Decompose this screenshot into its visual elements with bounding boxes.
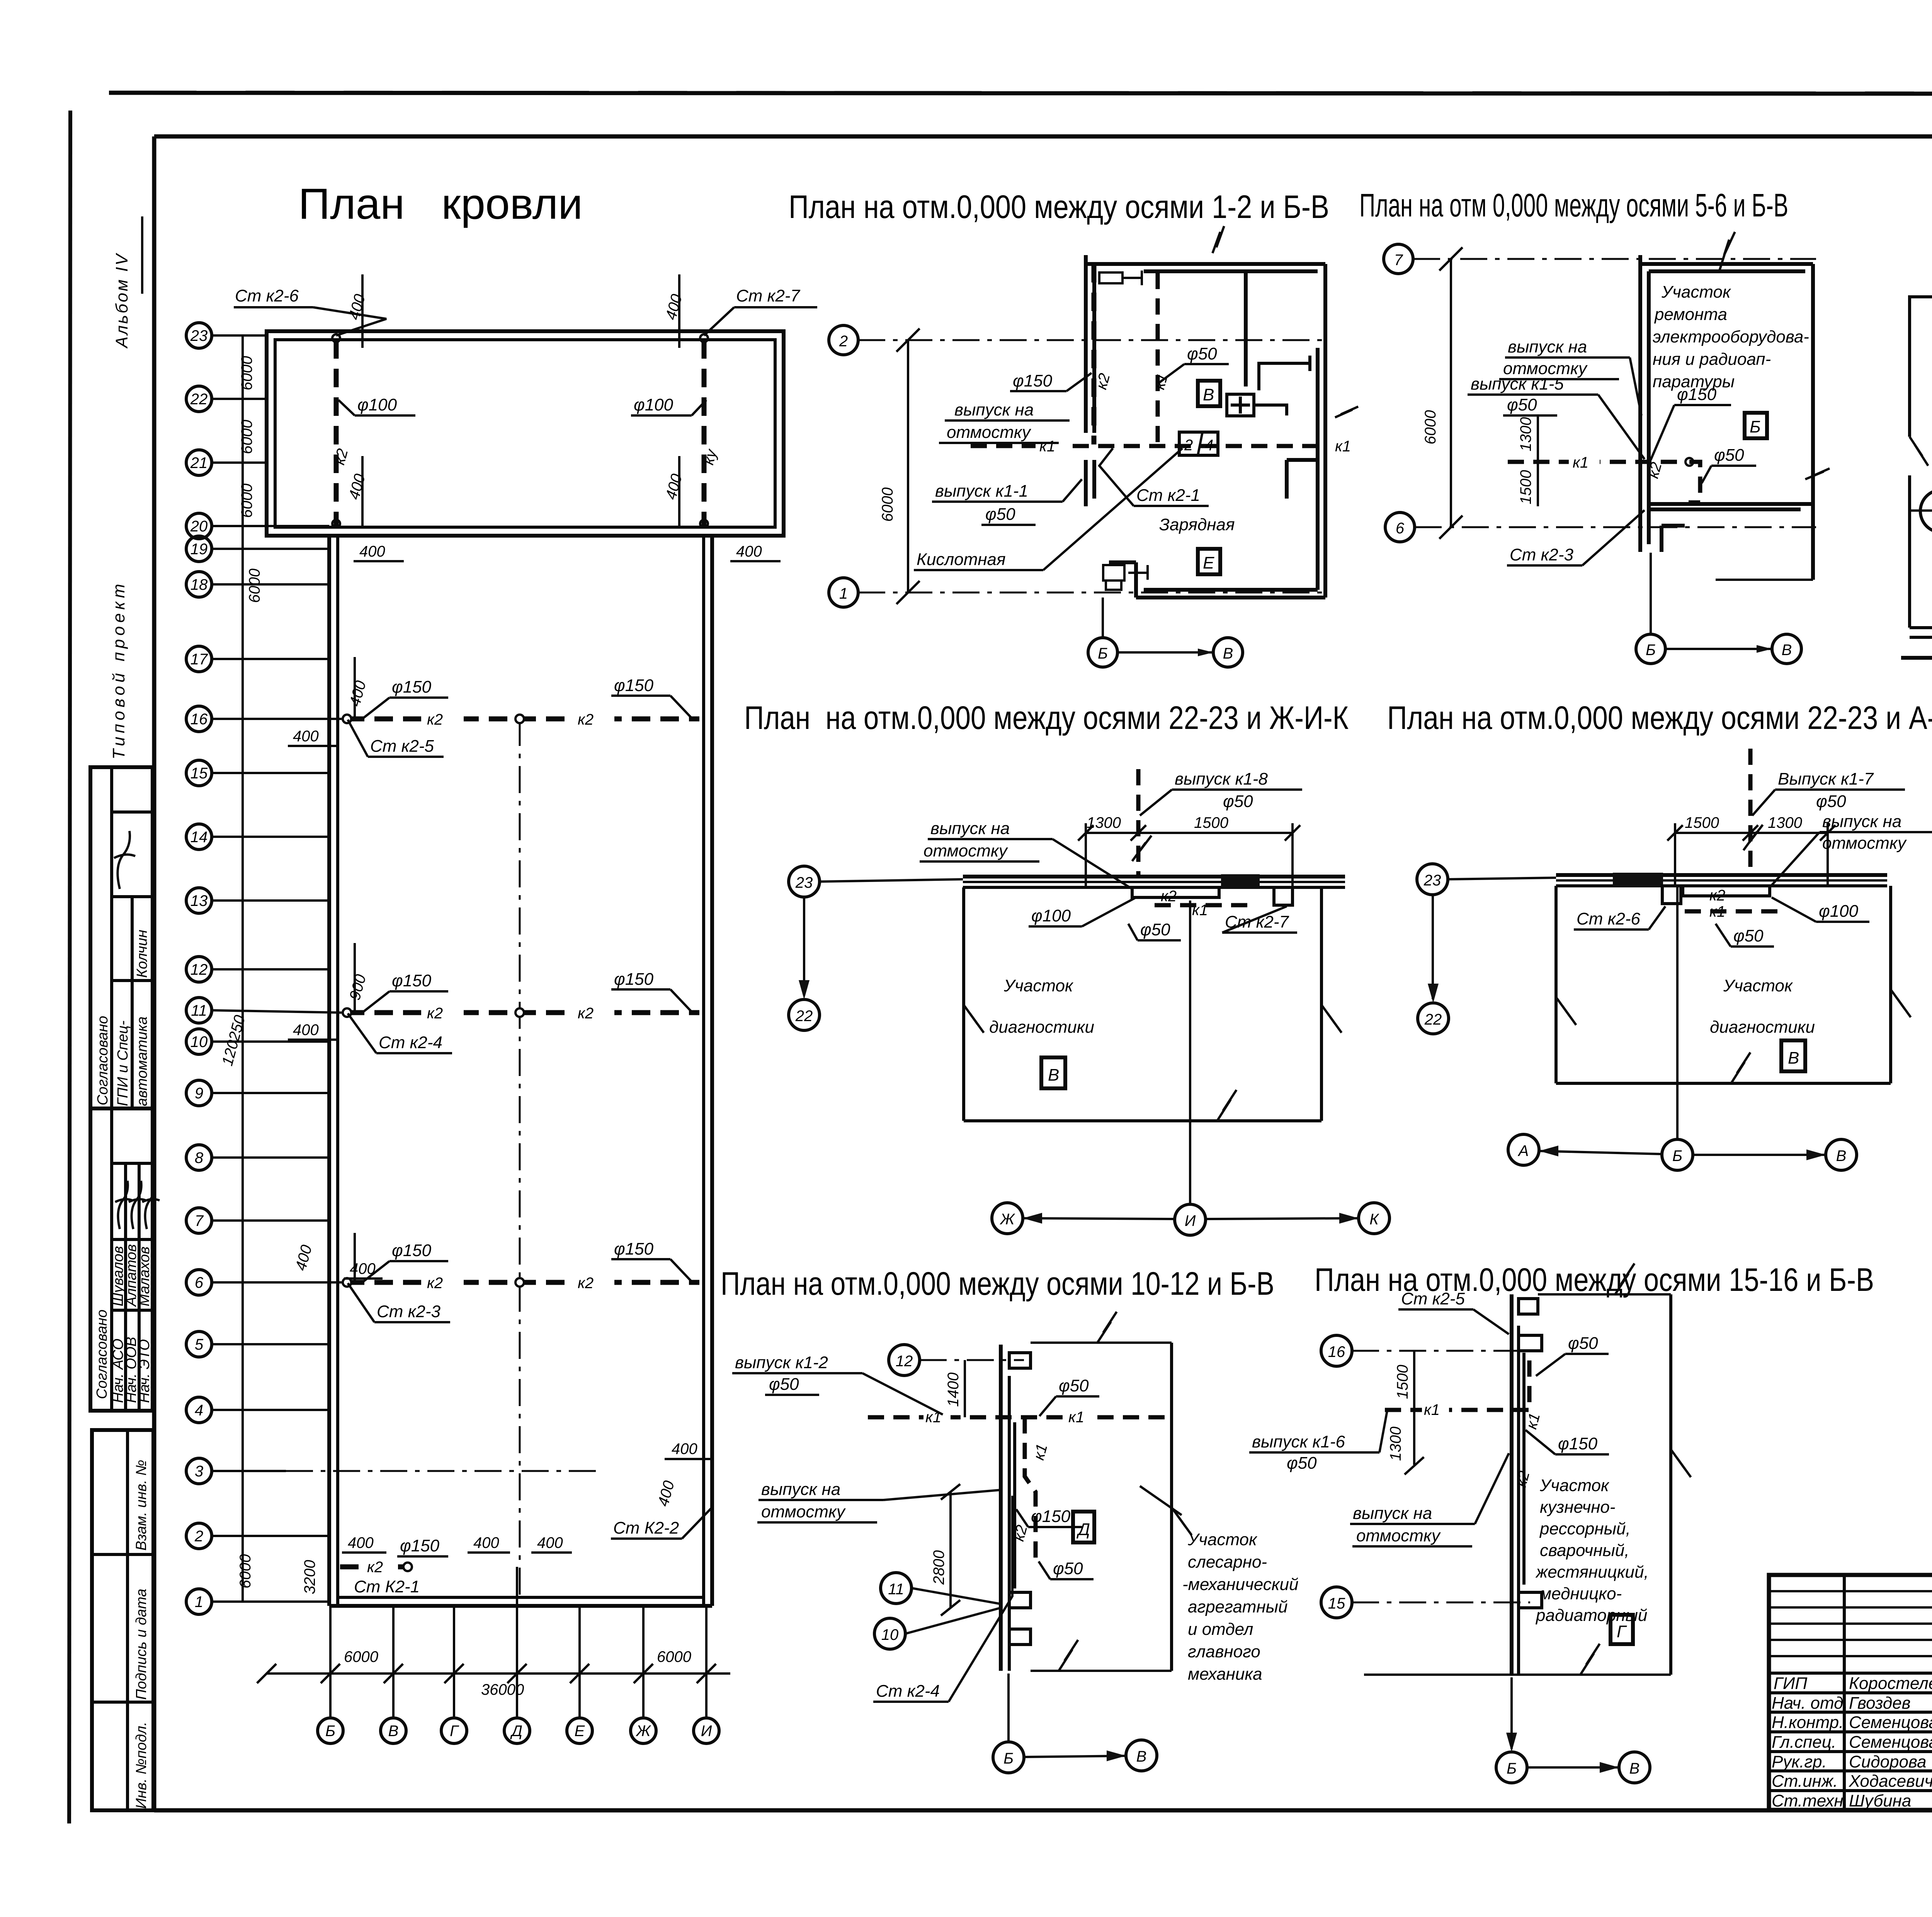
svg-text:к1: к1	[1335, 438, 1351, 455]
svg-text:22: 22	[190, 391, 208, 408]
svg-text:В: В	[1203, 385, 1214, 404]
left axis row lines	[212, 335, 342, 1602]
svg-text:15: 15	[1328, 1595, 1345, 1612]
svg-text:Г: Г	[450, 1723, 459, 1740]
axis circle 23	[1417, 864, 1448, 895]
svg-text:Колчин: Колчин	[134, 930, 150, 978]
break marks	[964, 1005, 984, 1033]
svg-text:Ст к2-5: Ст к2-5	[370, 737, 434, 756]
svg-text:φ50: φ50	[1733, 926, 1764, 945]
bottom axis circles A B V	[1508, 1134, 1539, 1165]
svg-text:Участок: Участок	[1003, 976, 1074, 995]
svg-text:Ст к2-7: Ст к2-7	[736, 286, 801, 305]
svg-text:Гл.спец.: Гл.спец.	[1772, 1733, 1836, 1752]
svg-text:400: 400	[348, 1534, 374, 1551]
svg-text:Согласовано: Согласовано	[95, 1016, 111, 1105]
svg-text:Е: Е	[575, 1723, 585, 1740]
svg-text:Б: Б	[1003, 1750, 1014, 1767]
axis circle 7	[1384, 244, 1413, 274]
svg-text:выпуск к1-5: выпуск к1-5	[1471, 375, 1564, 393]
axis circle 22	[1418, 1003, 1449, 1034]
axis circle 1	[829, 578, 858, 607]
K1 dashed horizontal	[868, 1415, 1166, 1420]
svg-text:Ст к2-5: Ст к2-5	[1401, 1289, 1465, 1308]
B room tag	[1745, 413, 1767, 438]
svg-text:к2: к2	[578, 1005, 594, 1022]
svg-text:18: 18	[190, 576, 208, 593]
svg-text:к2: к2	[578, 711, 594, 728]
svg-text:φ50: φ50	[1187, 344, 1217, 363]
2/4 box	[1179, 432, 1218, 455]
axis circle 6	[1385, 512, 1415, 542]
svg-text:11: 11	[191, 1002, 207, 1019]
svg-text:1400: 1400	[945, 1372, 962, 1407]
svg-text:14: 14	[190, 829, 208, 846]
svg-text:1300: 1300	[1387, 1427, 1404, 1461]
svg-text:23: 23	[190, 327, 208, 344]
break marks	[1097, 1312, 1117, 1343]
svg-text:φ150: φ150	[1013, 371, 1053, 390]
K1 dashed pipes	[971, 444, 1318, 448]
svg-text:φ50: φ50	[1140, 920, 1170, 939]
svg-text:выпуск к1-2: выпуск к1-2	[735, 1353, 828, 1372]
axis circle 22	[789, 999, 820, 1030]
svg-text:к2: к2	[427, 1005, 443, 1022]
svg-text:к2: к2	[427, 1275, 443, 1292]
svg-text:ния и радиоап-: ния и радиоап-	[1653, 350, 1771, 369]
svg-text:3200: 3200	[301, 1560, 318, 1594]
svg-text:4: 4	[195, 1402, 203, 1419]
svg-text:к1: к1	[1573, 454, 1588, 471]
svg-text:φ150: φ150	[392, 971, 432, 990]
bottom axis circles B V	[1088, 638, 1117, 667]
svg-text:выпуск к1-1: выпуск к1-1	[935, 482, 1028, 501]
K2 row at axis 6	[292, 1233, 699, 1322]
svg-text:φ50: φ50	[985, 505, 1015, 524]
svg-text:Г: Г	[1617, 1622, 1627, 1641]
svg-text:400: 400	[293, 1021, 319, 1039]
svg-text:1300: 1300	[1517, 417, 1534, 451]
svg-text:400: 400	[293, 728, 319, 745]
axis circle 16	[1321, 1335, 1352, 1366]
svg-text:отмостку: отмостку	[947, 423, 1032, 442]
St K2-6 label	[234, 286, 386, 335]
svg-text:16: 16	[190, 711, 208, 728]
svg-text:выпуск на: выпуск на	[930, 819, 1010, 838]
svg-text:ГПИ и Спец-: ГПИ и Спец-	[115, 1020, 131, 1106]
svg-text:Коростелев: Коростелев	[1849, 1674, 1932, 1693]
svg-text:1500: 1500	[1394, 1365, 1411, 1399]
wall vertical double	[999, 1345, 1003, 1671]
svg-text:1: 1	[839, 585, 848, 602]
svg-text:5: 5	[195, 1336, 204, 1353]
bottom axis circles	[993, 1742, 1024, 1773]
bottom axis circles	[1636, 634, 1665, 664]
thin top rows	[1769, 1591, 1932, 1656]
svg-text:К: К	[1369, 1211, 1379, 1228]
svg-text:электрооборудова-: электрооборудова-	[1653, 327, 1809, 346]
bottom axis circles	[992, 1203, 1023, 1234]
svg-text:к1: к1	[1068, 1409, 1084, 1426]
svg-text:ремонта: ремонта	[1654, 305, 1727, 324]
svg-text:Ст к2-3: Ст к2-3	[1510, 545, 1574, 564]
svg-text:Б: Б	[1672, 1147, 1682, 1165]
svg-text:1500: 1500	[1194, 814, 1228, 831]
svg-text:6: 6	[195, 1274, 204, 1291]
svg-text:13: 13	[190, 892, 208, 909]
left inlet pipe	[1910, 509, 1932, 512]
svg-text:выпуск к1-6: выпуск к1-6	[1252, 1432, 1345, 1451]
svg-text:Ж: Ж	[636, 1723, 651, 1740]
svg-text:400: 400	[537, 1534, 563, 1551]
svg-text:400: 400	[672, 1440, 697, 1457]
labels	[732, 1353, 943, 1415]
V room tag	[1198, 381, 1220, 406]
top wall triple	[1556, 873, 1887, 877]
E room tag	[1198, 549, 1220, 574]
svg-text:План кровли: План кровли	[298, 180, 583, 228]
break marks	[1719, 232, 1735, 271]
dims 1400 / 2800	[964, 1360, 966, 1417]
svg-text:Кислотная: Кислотная	[917, 550, 1006, 569]
svg-text:Д: Д	[510, 1723, 522, 1740]
svg-text:И: И	[701, 1723, 712, 1740]
svg-text:к2: к2	[427, 711, 443, 728]
svg-text:10: 10	[190, 1033, 208, 1050]
svg-text:φ50: φ50	[1714, 446, 1744, 465]
svg-text:В: В	[1782, 642, 1792, 659]
top wall (triple)	[963, 875, 1345, 878]
svg-text:φ150: φ150	[400, 1536, 440, 1555]
svg-text:к2: к2	[578, 1275, 594, 1292]
sidebar stamp box 3 (Vzam inv / Podpis i data / Inv N podl)	[92, 1430, 153, 1810]
svg-text:3: 3	[195, 1463, 203, 1480]
svg-text:Взам. инв. №: Взам. инв. №	[133, 1460, 150, 1551]
svg-text:1300: 1300	[1768, 814, 1802, 831]
svg-text:φ100: φ100	[1031, 906, 1071, 925]
fixtures bottom (sink)	[1103, 565, 1124, 581]
svg-text:6000: 6000	[237, 1554, 254, 1588]
svg-text:отмостку: отмостку	[1822, 834, 1907, 853]
svg-text:400: 400	[473, 1534, 499, 1551]
svg-text:11: 11	[888, 1581, 904, 1598]
svg-text:φ50: φ50	[1816, 792, 1846, 811]
vertical 6000 dims top-left	[219, 356, 318, 1594]
dims 1300/1500	[1537, 414, 1539, 506]
paper edge top	[109, 93, 1932, 94]
svg-text:В: В	[1136, 1748, 1147, 1765]
svg-text:Шубина: Шубина	[1849, 1791, 1911, 1810]
svg-text:Малахов: Малахов	[136, 1246, 153, 1306]
svg-text:Участок: Участок	[1723, 976, 1793, 995]
svg-text:слесарно-: слесарно-	[1188, 1553, 1267, 1571]
svg-text:План на отм.0,000 между осями: План на отм.0,000 между осями 10-12 и Б-…	[721, 1265, 1274, 1302]
svg-text:12: 12	[896, 1353, 913, 1370]
svg-text:жестяницкий,: жестяницкий,	[1535, 1563, 1649, 1582]
svg-text:φ150: φ150	[1031, 1507, 1071, 1526]
svg-text:План на отм.0,000 между осями: План на отм.0,000 между осями 15-16 и Б-…	[1315, 1262, 1874, 1298]
room right wall	[1170, 1343, 1173, 1671]
svg-text:рессорный,: рессорный,	[1539, 1519, 1631, 1538]
svg-text:6000: 6000	[238, 356, 255, 390]
svg-text:Типовой проект: Типовой проект	[109, 581, 128, 759]
room	[1554, 886, 1558, 1083]
room	[962, 887, 965, 1121]
svg-text:23: 23	[1423, 872, 1441, 889]
svg-text:ГИП: ГИП	[1774, 1674, 1807, 1693]
dims 1500 1300	[1413, 1351, 1415, 1465]
svg-text:400: 400	[350, 1260, 376, 1277]
svg-text:4: 4	[1205, 437, 1213, 454]
walls	[1640, 255, 1813, 580]
svg-text:φ150: φ150	[392, 678, 432, 696]
svg-text:φ50: φ50	[769, 1375, 799, 1394]
K2 row at axis 16	[288, 657, 699, 757]
svg-text:1300: 1300	[1087, 814, 1121, 831]
svg-text:7: 7	[1394, 252, 1403, 269]
svg-text:выпуск на: выпуск на	[954, 400, 1034, 419]
svg-text:6000: 6000	[246, 569, 263, 603]
svg-text:-механический: -механический	[1182, 1575, 1298, 1594]
svg-text:Н.контр.: Н.контр.	[1772, 1713, 1844, 1732]
axis circle 15	[1321, 1587, 1352, 1618]
svg-text:Б: Б	[1646, 642, 1656, 659]
svg-text:1500: 1500	[1517, 470, 1534, 504]
labels	[1752, 770, 1905, 815]
K1 dashed vertical above wall	[1136, 769, 1141, 875]
svg-text:Ст к2-6: Ст к2-6	[1577, 909, 1641, 928]
svg-text:Инв. №подл.: Инв. №подл.	[133, 1722, 150, 1809]
svg-text:6000: 6000	[238, 484, 255, 518]
svg-text:Ходасевич: Ходасевич	[1849, 1772, 1932, 1791]
svg-text:Участок: Участок	[1661, 283, 1731, 301]
svg-text:Рук.гр.: Рук.гр.	[1772, 1752, 1827, 1771]
paper edge left	[69, 111, 70, 1823]
labels	[1140, 770, 1302, 815]
K1 dashed vertical	[1748, 749, 1753, 874]
svg-text:агрегатный: агрегатный	[1188, 1597, 1288, 1616]
svg-text:к1: к1	[1424, 1401, 1440, 1418]
svg-text:Зарядная: Зарядная	[1159, 515, 1235, 534]
svg-text:Ст к2-4: Ст к2-4	[379, 1033, 442, 1052]
svg-text:Семенцова: Семенцова	[1849, 1733, 1932, 1752]
svg-text:10: 10	[881, 1626, 899, 1643]
svg-text:диагностики: диагностики	[1710, 1018, 1815, 1037]
bottom circles	[1496, 1752, 1527, 1783]
labels	[1653, 283, 1809, 391]
axis circle 12	[889, 1345, 920, 1376]
svg-text:В: В	[1629, 1760, 1640, 1777]
axis circles 23..1	[186, 323, 212, 1614]
axis circle 11	[881, 1573, 912, 1604]
svg-text:отмостку: отмостку	[761, 1502, 846, 1521]
svg-text:20: 20	[190, 518, 208, 535]
axis circle 2	[829, 325, 858, 355]
svg-text:9: 9	[195, 1085, 203, 1102]
400 dims at risers	[345, 274, 781, 561]
svg-text:2: 2	[839, 333, 848, 350]
axis circle 23	[789, 866, 820, 897]
svg-text:6000: 6000	[879, 487, 896, 522]
svg-text:кузнечно-: кузнечно-	[1540, 1498, 1616, 1517]
svg-text:22: 22	[795, 1008, 813, 1025]
labels	[1536, 1334, 1609, 1376]
svg-text:φ150: φ150	[392, 1241, 432, 1260]
svg-text:φ50: φ50	[1568, 1334, 1598, 1353]
svg-text:φ150: φ150	[1677, 385, 1717, 404]
svg-text:главного: главного	[1188, 1642, 1260, 1661]
svg-text:Семенцова: Семенцова	[1849, 1713, 1932, 1732]
svg-text:φ50: φ50	[1507, 395, 1537, 414]
dim 1300 1500	[1086, 832, 1293, 834]
plus fixture right	[1227, 394, 1287, 416]
svg-text:Ст к2-3: Ст к2-3	[377, 1302, 441, 1321]
svg-text:Подпись и дата: Подпись и дата	[133, 1589, 150, 1700]
sidebar stamp box 2 (Soglasovano / Nach ASO OOB ETO)	[90, 1108, 160, 1411]
svg-text:автоматика: автоматика	[134, 1016, 150, 1106]
svg-text:φ50: φ50	[1223, 792, 1253, 811]
svg-text:φ150: φ150	[614, 676, 654, 695]
svg-text:1500: 1500	[1685, 814, 1719, 831]
svg-text:И: И	[1185, 1212, 1196, 1229]
svg-text:отмостку: отмостку	[1356, 1526, 1441, 1545]
svg-text:6: 6	[1396, 520, 1405, 537]
svg-text:6000: 6000	[344, 1648, 378, 1665]
sidebar stamp box 1 (Soglasovano / GPI i Spec-avtomatika / Kolchin)	[90, 767, 153, 1108]
K2 row at axis 11	[288, 943, 699, 1053]
F100 labels	[338, 395, 415, 415]
svg-text:21: 21	[190, 455, 208, 472]
bottom letter axes	[257, 1567, 730, 1718]
svg-text:φ100: φ100	[357, 395, 397, 414]
svg-text:В: В	[1223, 645, 1233, 662]
break marks	[1213, 226, 1224, 253]
svg-text:выпуск на: выпуск на	[761, 1480, 840, 1499]
svg-text:Е: Е	[1203, 553, 1214, 572]
svg-text:сварочный,: сварочный,	[1540, 1541, 1629, 1560]
fixtures top	[1099, 272, 1122, 283]
svg-text:План на отм.0,000 между осями: План на отм.0,000 между осями 22-23 и Ж-…	[744, 700, 1349, 736]
St K2-7 label	[704, 286, 817, 335]
labels	[1010, 371, 1092, 391]
svg-text:22: 22	[1424, 1011, 1442, 1028]
svg-text:Б: Б	[1750, 417, 1761, 436]
svg-text:и отдел: и отдел	[1188, 1620, 1253, 1639]
wall vertical	[1510, 1294, 1514, 1675]
floor lines	[1910, 626, 1932, 629]
svg-text:Участок: Участок	[1187, 1530, 1258, 1549]
svg-text:φ50: φ50	[1053, 1559, 1083, 1578]
section frame	[1910, 297, 1932, 437]
K2 riser dashed verticals in wide rect	[334, 340, 339, 526]
svg-text:φ50: φ50	[1287, 1454, 1317, 1473]
svg-text:Ст.техн.: Ст.техн.	[1772, 1791, 1848, 1810]
svg-text:Б: Б	[325, 1723, 335, 1740]
svg-text:к2: к2	[367, 1559, 383, 1576]
svg-text:Д: Д	[1076, 1520, 1090, 1539]
U hook end	[1920, 490, 1932, 532]
svg-text:В: В	[388, 1723, 399, 1740]
svg-text:Сидорова: Сидорова	[1849, 1752, 1926, 1771]
svg-text:400: 400	[359, 543, 385, 560]
assembly below wall	[1683, 886, 1770, 896]
svg-text:выпуск к1-8: выпуск к1-8	[1175, 770, 1268, 788]
svg-text:17: 17	[190, 651, 208, 668]
K2 dashed vertical	[1527, 1360, 1532, 1411]
svg-text:15: 15	[190, 765, 208, 782]
svg-text:φ150: φ150	[614, 1239, 654, 1258]
svg-text:2800: 2800	[930, 1550, 947, 1585]
svg-text:16: 16	[1328, 1343, 1345, 1360]
svg-text:23: 23	[795, 874, 813, 891]
walls	[1086, 255, 1325, 598]
svg-text:2: 2	[194, 1528, 203, 1545]
svg-text:А: А	[1518, 1142, 1529, 1159]
svg-text:План на отм.0,000 между осями: План на отм.0,000 между осями 22-23 и А-…	[1387, 700, 1932, 736]
svg-text:В: В	[1048, 1066, 1059, 1084]
svg-text:Нач. ЭТО: Нач. ЭТО	[136, 1339, 153, 1403]
svg-text:выпуск на: выпуск на	[1353, 1504, 1432, 1523]
svg-text:к2: к2	[1709, 887, 1725, 904]
svg-text:Участок: Участок	[1539, 1476, 1610, 1495]
vypusk assembly under wall	[1132, 887, 1219, 897]
axis 3 dashdot row + St K2-2	[286, 1440, 713, 1539]
svg-text:План на отм.0,000 между осями: План на отм.0,000 между осями 3-2 и Ж-И	[1930, 1012, 1932, 1049]
svg-text:Б: Б	[1098, 645, 1108, 662]
svg-text:В: В	[1836, 1147, 1847, 1165]
svg-text:к2: к2	[1161, 888, 1177, 905]
svg-text:к1: к1	[1039, 438, 1055, 455]
roof wide rectangle walls	[267, 331, 784, 536]
svg-text:φ100: φ100	[634, 395, 673, 414]
svg-text:механика: механика	[1188, 1665, 1262, 1684]
svg-text:Гвоздев: Гвоздев	[1849, 1694, 1911, 1713]
svg-text:Ст к2-6: Ст к2-6	[235, 286, 299, 305]
svg-text:6000: 6000	[238, 420, 255, 454]
svg-text:Ст К2-1: Ст К2-1	[354, 1577, 420, 1596]
roof narrow rectangle walls	[327, 536, 331, 1606]
svg-text:медницко-: медницко-	[1540, 1584, 1622, 1603]
svg-text:400: 400	[736, 543, 762, 560]
svg-text:19: 19	[190, 541, 208, 558]
dims 1500 1300	[1675, 832, 1828, 834]
svg-text:36000: 36000	[481, 1681, 524, 1698]
svg-text:Ст К2-2: Ст К2-2	[613, 1519, 679, 1537]
svg-text:12: 12	[190, 961, 208, 978]
svg-text:В: В	[1788, 1049, 1799, 1067]
K1 dashed	[1508, 460, 1677, 464]
svg-text:8: 8	[195, 1149, 204, 1166]
svg-text:Б: Б	[1507, 1760, 1517, 1777]
svg-text:φ150: φ150	[1558, 1434, 1598, 1453]
svg-text:План на отм.0,000 между осями: План на отм.0,000 между осями 1-2 и Б-В	[789, 189, 1329, 225]
room	[1669, 1294, 1672, 1675]
svg-text:диагностики: диагностики	[989, 1018, 1094, 1037]
svg-text:φ50: φ50	[1059, 1376, 1089, 1395]
svg-text:Ст к2-1: Ст к2-1	[1136, 486, 1200, 505]
svg-text:отмостку: отмостку	[923, 841, 1009, 860]
break marks	[1556, 997, 1576, 1025]
svg-text:6000: 6000	[1422, 410, 1439, 444]
svg-text:Выпуск к1-7: Выпуск к1-7	[1778, 770, 1874, 788]
K2 row near axis 1 (St K2-1)	[340, 1534, 572, 1597]
center axis dashdot vertical	[519, 719, 521, 1602]
svg-text:7: 7	[195, 1212, 204, 1229]
svg-text:Ст.инж.: Ст.инж.	[1772, 1772, 1838, 1791]
svg-text:1: 1	[195, 1594, 203, 1611]
svg-text:6000: 6000	[657, 1648, 691, 1665]
svg-text:Альбом IV: Альбом IV	[112, 253, 131, 349]
